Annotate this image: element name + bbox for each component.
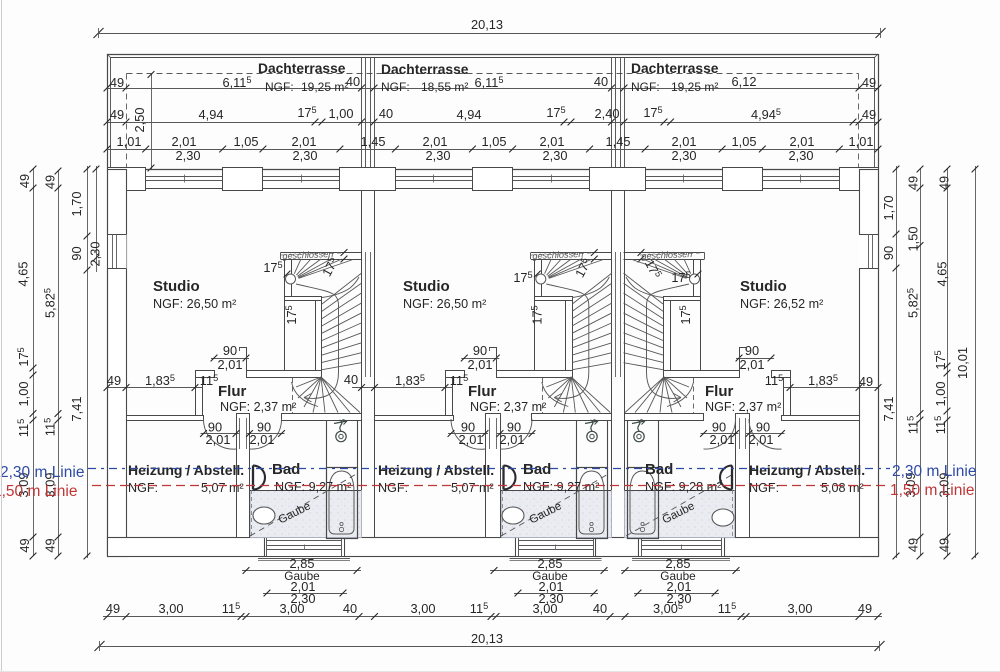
svg-text:49: 49	[858, 601, 872, 616]
svg-text:3,00: 3,00	[159, 601, 184, 616]
dimension row 49 / 6,11-5 / 40 (terrace upper)	[104, 74, 882, 91]
svg-text:2,01: 2,01	[468, 357, 493, 372]
dimension dormer unit 3 (2,85/Gaube/2,01/2,30)	[621, 556, 740, 606]
labels 2,30 window widths	[176, 148, 814, 163]
svg-text:49: 49	[862, 75, 876, 90]
svg-text:1,50 m Linie: 1,50 m Linie	[0, 483, 77, 500]
svg-text:10,01: 10,01	[955, 347, 970, 379]
dormer window unit 2	[510, 537, 602, 561]
svg-text:1,00: 1,00	[16, 382, 31, 407]
svg-text:1,01: 1,01	[117, 134, 142, 149]
svg-text:NGF:: NGF:	[749, 481, 779, 495]
wall left outer	[108, 170, 127, 557]
svg-text:1,05: 1,05	[482, 134, 507, 149]
svg-text:Bad: Bad	[645, 461, 673, 478]
svg-text:3,00: 3,00	[280, 601, 305, 616]
svg-text:Dachterrasse: Dachterrasse	[631, 61, 719, 76]
svg-text:Dachterrasse: Dachterrasse	[381, 62, 469, 77]
svg-text:2,30: 2,30	[176, 148, 201, 163]
label Studio unit 2	[403, 278, 486, 311]
window right wall	[859, 169, 879, 556]
svg-text:2,30: 2,30	[426, 148, 451, 163]
stair unit 1	[281, 249, 362, 413]
wall interior unit 2	[375, 371, 612, 538]
dormer window unit 3	[632, 537, 730, 561]
dimension right chain B (49/1,50/5,82-5/11-5/3,09/49)	[903, 166, 923, 560]
door bad unit 1	[253, 466, 265, 490]
svg-text:1,00: 1,00	[933, 382, 948, 407]
dimension door studio unit 1 (90/2,01)	[211, 343, 250, 377]
dimension vertical 2,50 terrace	[132, 71, 154, 171]
wall main top band	[107, 170, 878, 189]
dormer window unit 1	[258, 537, 350, 561]
svg-text:40: 40	[594, 74, 608, 89]
shower symbol unit 1	[334, 420, 347, 442]
svg-text:40: 40	[344, 372, 358, 387]
svg-text:1,01: 1,01	[849, 134, 874, 149]
wall interior unit 1	[127, 371, 362, 538]
svg-text:NGF:: NGF:	[128, 481, 158, 495]
dimension left chain A (49/4,65/17-5/1,00/11-5/3,09/49)	[16, 166, 37, 560]
svg-text:1,70: 1,70	[881, 196, 896, 221]
svg-text:2,01: 2,01	[172, 134, 197, 149]
svg-text:2,01: 2,01	[740, 357, 765, 372]
1,50 m line (red)	[0, 482, 974, 500]
dimension left chain C (1,70/90/7,41)	[69, 166, 90, 560]
2,30 m line (blue)	[0, 463, 976, 481]
svg-text:Dachterrasse: Dachterrasse	[258, 61, 346, 76]
dimension 11-5/1,83-5/49 unit 3	[765, 373, 882, 391]
svg-text:2,30: 2,30	[789, 148, 814, 163]
dimension door studio unit 2 (90/2,01)	[461, 343, 500, 377]
label Flur unit 3	[705, 383, 781, 414]
labels 17-5 stair unit 1	[263, 255, 341, 325]
dimension left chain D (2,30)	[88, 166, 103, 272]
label Bad unit 3	[645, 461, 721, 494]
svg-text:1,45: 1,45	[361, 134, 386, 149]
svg-text:2,01: 2,01	[459, 432, 484, 447]
svg-text:NGF: 26,50 m²: NGF: 26,50 m²	[153, 297, 236, 311]
dimension row 49 / 4,94 / 17-5 / 1,00 (terrace middle)	[104, 105, 882, 125]
svg-text:4,65: 4,65	[935, 262, 950, 287]
svg-text:2,01: 2,01	[790, 134, 815, 149]
svg-text:5,08 m²: 5,08 m²	[821, 481, 864, 495]
svg-text:49: 49	[17, 174, 32, 188]
doors flur unit 3	[700, 419, 785, 449]
svg-text:90: 90	[473, 343, 487, 358]
svg-text:NGF:: NGF:	[381, 80, 410, 94]
dimension left chain B (49/5,82-5/11-5/3,09/49)	[43, 168, 62, 560]
svg-text:2,01: 2,01	[250, 432, 275, 447]
svg-text:NGF:: NGF:	[265, 80, 294, 94]
svg-text:3,00: 3,00	[788, 601, 813, 616]
svg-text:7,41: 7,41	[69, 397, 84, 422]
stair unit 3	[624, 249, 705, 413]
svg-text:49: 49	[906, 538, 921, 552]
dimension right chain C (49/4,65/17-5/1,00/11-5/3,09/49)	[933, 166, 952, 560]
svg-text:1,50 m Linie: 1,50 m Linie	[890, 482, 974, 499]
shower symbol unit 2	[585, 420, 598, 442]
wall piers top band	[108, 168, 879, 191]
svg-text:Bad: Bad	[272, 461, 300, 478]
svg-text:1,05: 1,05	[732, 134, 757, 149]
svg-text:3,00: 3,00	[533, 601, 558, 616]
svg-text:1,05: 1,05	[234, 134, 259, 149]
svg-text:5,07 m²: 5,07 m²	[201, 481, 244, 495]
doors flur unit 2	[448, 419, 536, 449]
svg-text:1,50: 1,50	[906, 227, 921, 252]
svg-text:Studio: Studio	[153, 278, 200, 295]
svg-text:NGF: 2,37 m²: NGF: 2,37 m²	[220, 400, 296, 414]
svg-text:NGF:: NGF:	[378, 481, 408, 495]
wall bottom	[108, 538, 879, 557]
wall party 1	[362, 190, 375, 537]
svg-text:49: 49	[937, 538, 952, 552]
svg-text:49: 49	[862, 107, 876, 122]
svg-text:19,25 m²: 19,25 m²	[301, 80, 348, 94]
svg-text:2,50: 2,50	[132, 108, 147, 133]
wall right outer	[860, 170, 879, 557]
svg-text:2,30: 2,30	[543, 148, 568, 163]
label Heizung/Abstell unit 3	[749, 462, 865, 495]
svg-text:NGF: 9,27 m²: NGF: 9,27 m²	[275, 480, 351, 494]
svg-text:NGF: 9,28 m²: NGF: 9,28 m²	[645, 480, 721, 494]
svg-text:Studio: Studio	[740, 278, 787, 295]
svg-text:20,13: 20,13	[471, 631, 503, 646]
svg-text:5,07 m²: 5,07 m²	[451, 481, 494, 495]
label NGF terrace unit 1	[265, 80, 348, 94]
svg-text:49: 49	[906, 176, 921, 190]
svg-text:90: 90	[223, 343, 237, 358]
svg-text:19,25 m²: 19,25 m²	[671, 80, 718, 94]
svg-text:2,01: 2,01	[218, 357, 243, 372]
svg-text:NGF: 2,37 m²: NGF: 2,37 m²	[705, 400, 781, 414]
dimension overall top 20,13	[94, 17, 886, 38]
svg-text:NGF: 26,52 m²: NGF: 26,52 m²	[740, 297, 823, 311]
dimension chain bottom 49/3,00/11-5/3,00/40	[103, 601, 882, 620]
svg-text:NGF:: NGF:	[631, 80, 660, 94]
wall terrace divider 1	[362, 58, 375, 168]
svg-text:2,01: 2,01	[500, 432, 525, 447]
svg-text:Bad: Bad	[523, 461, 551, 478]
svg-text:90: 90	[745, 343, 759, 358]
label NGF terrace unit 2	[381, 80, 468, 94]
svg-text:2,30 m Linie: 2,30 m Linie	[892, 463, 976, 480]
doors flur unit 1	[200, 419, 285, 449]
windows in top wall	[146, 175, 840, 183]
svg-text:Flur: Flur	[705, 383, 733, 400]
label Studio unit 1	[153, 278, 236, 311]
window left wall	[107, 169, 127, 556]
svg-text:90: 90	[69, 246, 84, 260]
labels 17-5 stair unit 2	[513, 256, 594, 325]
svg-text:49: 49	[107, 373, 121, 388]
dimension door studio unit 3 (90/2,01)	[736, 343, 775, 377]
dimension 49/1,83-5/11-5 unit 1	[104, 373, 219, 391]
svg-text:49: 49	[43, 175, 58, 189]
label Flur unit 1	[218, 383, 296, 414]
svg-text:7,41: 7,41	[881, 397, 896, 422]
svg-text:2,30: 2,30	[672, 148, 697, 163]
dimension 1,83-5/11-5 unit 2	[352, 373, 468, 391]
svg-text:49: 49	[110, 107, 124, 122]
wall terrace divider 2	[612, 58, 625, 168]
dimension row 1,01 / 2,01 / 1,05 windows	[104, 134, 882, 152]
dimension dormer unit 2 (2,85/Gaube/2,01/2,30)	[490, 556, 608, 606]
svg-text:2,01: 2,01	[540, 134, 565, 149]
svg-text:49: 49	[17, 538, 32, 552]
svg-text:40: 40	[343, 601, 357, 616]
svg-text:Flur: Flur	[218, 383, 246, 400]
stair unit 2	[531, 249, 612, 413]
svg-text:Heizung / Abstell.: Heizung / Abstell.	[749, 462, 865, 478]
label NGF terrace unit 3	[631, 80, 718, 94]
svg-text:2,40: 2,40	[595, 106, 620, 121]
svg-text:40: 40	[593, 601, 607, 616]
dimension overall bottom 20,13	[95, 631, 885, 651]
svg-text:Studio: Studio	[403, 278, 450, 295]
door bad unit 3	[720, 466, 732, 490]
bathtub and floor unit 1	[250, 421, 362, 539]
wall interior unit 3	[625, 371, 860, 538]
label Bad unit 1	[272, 461, 351, 494]
svg-text:49: 49	[859, 374, 873, 389]
door bad unit 2	[504, 466, 516, 490]
svg-text:4,94: 4,94	[199, 107, 224, 122]
svg-text:NGF: 9,27 m²: NGF: 9,27 m²	[523, 480, 599, 494]
svg-text:3,00: 3,00	[411, 601, 436, 616]
wall party 2	[612, 190, 625, 537]
bathtub and floor unit 2	[501, 421, 612, 539]
svg-text:1,70: 1,70	[69, 192, 84, 217]
svg-text:2,01: 2,01	[672, 134, 697, 149]
svg-text:Heizung / Abstell.: Heizung / Abstell.	[128, 462, 244, 478]
wall terrace parapet	[107, 54, 879, 169]
svg-text:18,55 m²: 18,55 m²	[421, 80, 468, 94]
terrace boundary dashed line	[127, 74, 859, 170]
svg-text:2,30: 2,30	[293, 148, 318, 163]
label Bad unit 2	[523, 461, 599, 494]
svg-text:NGF: 26,50 m²: NGF: 26,50 m²	[403, 297, 486, 311]
dimension right chain A (1,70/90/7,41)	[881, 166, 899, 560]
svg-text:Heizung / Abstell.: Heizung / Abstell.	[378, 462, 494, 478]
label Heizung/Abstell unit 1	[128, 462, 244, 495]
svg-text:2,30 m Linie: 2,30 m Linie	[0, 464, 84, 481]
dimension dormer unit 1 (2,85/Gaube/2,01/2,30)	[242, 556, 361, 606]
svg-text:90: 90	[881, 246, 896, 260]
svg-text:1,45: 1,45	[606, 134, 631, 149]
svg-text:2,30: 2,30	[88, 242, 103, 267]
dimension right chain D (10,01)	[955, 166, 978, 560]
svg-text:2,01: 2,01	[292, 134, 317, 149]
svg-text:Flur: Flur	[468, 383, 496, 400]
label Studio unit 3	[740, 278, 823, 311]
svg-text:1,00: 1,00	[329, 106, 354, 121]
svg-text:4,65: 4,65	[16, 262, 31, 287]
svg-text:49: 49	[43, 538, 58, 552]
svg-text:2,01: 2,01	[423, 134, 448, 149]
svg-text:40: 40	[379, 106, 393, 121]
svg-text:49: 49	[106, 601, 120, 616]
svg-text:4,94: 4,94	[457, 107, 482, 122]
svg-text:2,01: 2,01	[749, 432, 774, 447]
label Flur unit 2	[468, 383, 546, 414]
labels 17-5 stair unit 3	[642, 257, 693, 325]
svg-text:2,01: 2,01	[206, 432, 231, 447]
svg-text:20,13: 20,13	[471, 17, 503, 32]
label Heizung/Abstell unit 2	[378, 462, 494, 495]
svg-text:NGF: 2,37 m²: NGF: 2,37 m²	[470, 400, 546, 414]
svg-text:49: 49	[110, 75, 124, 90]
bathtub and floor unit 3	[625, 421, 736, 539]
shower symbol unit 3	[632, 420, 645, 442]
svg-text:49: 49	[937, 176, 952, 190]
svg-text:6,12: 6,12	[732, 74, 757, 89]
svg-text:2,01: 2,01	[710, 432, 735, 447]
